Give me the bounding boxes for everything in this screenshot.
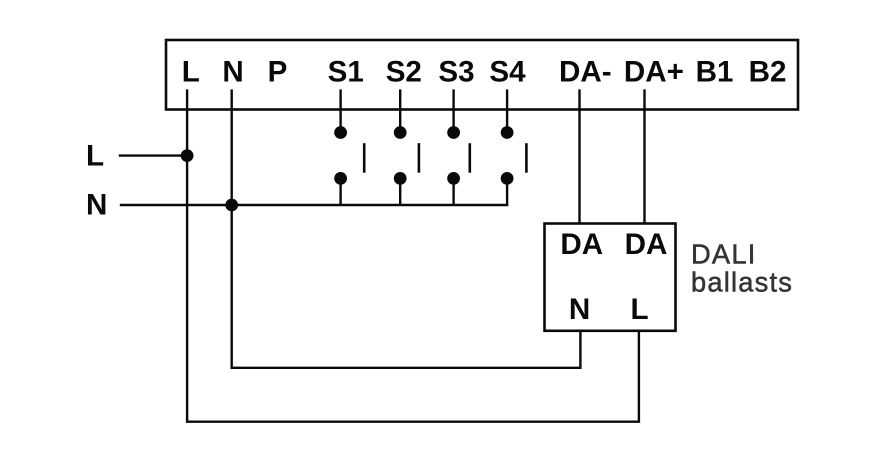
svg-text:S2: S2 <box>386 56 422 89</box>
svg-text:L: L <box>182 56 200 89</box>
wire: DA+ bus from terminal DA+ to ballast DA <box>643 89 645 223</box>
svg-text:S1: S1 <box>328 56 364 89</box>
switch S2 top contact <box>394 126 407 139</box>
wire: mains N from terminal N down, right-angle to DALI ballast N terminal <box>232 89 581 367</box>
svg-text:S4: S4 <box>489 56 526 89</box>
switch S3 bottom contact <box>447 172 460 185</box>
switch S4 bottom contact <box>501 172 514 185</box>
wire: switch S3 to N bus <box>452 178 454 205</box>
DALI ballast box U1 <box>545 224 676 331</box>
svg-text:L: L <box>86 140 104 173</box>
switch S4 actuator bar <box>525 143 528 173</box>
svg-text:S3: S3 <box>438 56 474 89</box>
terminal block (top box) <box>166 40 798 110</box>
switch S1 bottom contact <box>334 172 347 185</box>
switch S1: wire stub from terminal S1 <box>339 89 341 132</box>
wire: switch S2 to N bus <box>399 178 401 205</box>
switch S1 top contact <box>334 126 347 139</box>
svg-text:DA: DA <box>625 228 668 261</box>
wire: DA- bus from terminal DA- to ballast DA <box>578 89 580 223</box>
svg-text:DA: DA <box>560 228 603 261</box>
svg-text:DALI: DALI <box>691 238 757 269</box>
svg-text:DA+: DA+ <box>624 56 684 89</box>
node L junction (dot on L wire) <box>181 149 194 162</box>
switch S4 top contact <box>501 126 514 139</box>
wire: L feed to junction <box>119 154 187 156</box>
svg-text:N: N <box>86 189 107 222</box>
wire: switch S1 to N bus <box>339 178 341 205</box>
wire: mains L from terminal L down, right-angle to DALI ballast L terminal <box>187 89 639 421</box>
switch S2 bottom contact <box>394 172 407 185</box>
svg-text:P: P <box>268 56 288 89</box>
svg-text:N: N <box>222 56 243 89</box>
switch S3: wire stub from terminal S3 <box>452 89 454 132</box>
wire: N feed bus to switches <box>120 204 509 206</box>
svg-text:B1: B1 <box>696 56 734 89</box>
switch S2: wire stub from terminal S2 <box>399 89 401 132</box>
switch S2 actuator bar <box>418 143 421 173</box>
svg-text:DA-: DA- <box>559 56 612 89</box>
switch S4: wire stub from terminal S4 <box>506 89 508 132</box>
svg-text:L: L <box>630 293 648 326</box>
switch S3 actuator bar <box>468 143 471 173</box>
node N junction (dot on N wire) <box>225 199 238 212</box>
svg-text:N: N <box>569 293 590 326</box>
switch S3 top contact <box>447 126 460 139</box>
wire: switch S4 to N bus <box>506 178 508 205</box>
switch S1 actuator bar <box>363 143 366 173</box>
svg-text:B2: B2 <box>749 56 787 89</box>
svg-text:ballasts: ballasts <box>691 267 793 298</box>
